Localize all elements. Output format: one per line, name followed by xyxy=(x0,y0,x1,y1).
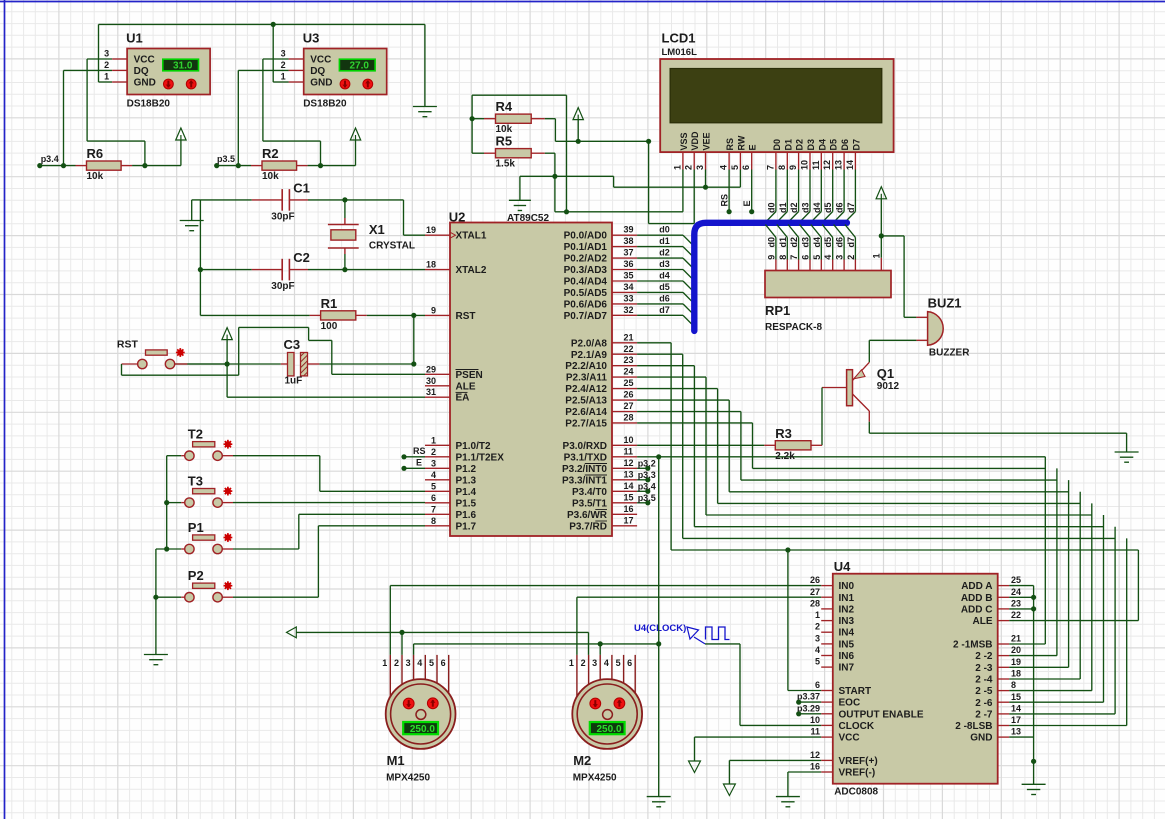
svg-text:17: 17 xyxy=(1011,715,1021,725)
svg-text:d4: d4 xyxy=(812,202,822,213)
svg-text:5: 5 xyxy=(815,657,820,667)
svg-text:12: 12 xyxy=(810,750,820,760)
svg-text:d0: d0 xyxy=(766,237,776,248)
svg-text:2: 2 xyxy=(684,165,694,170)
svg-text:ADD C: ADD C xyxy=(961,604,993,615)
svg-text:START: START xyxy=(839,686,872,697)
svg-text:BUZZER: BUZZER xyxy=(929,348,970,359)
svg-text:18: 18 xyxy=(1011,669,1021,679)
svg-text:38: 38 xyxy=(624,236,634,246)
svg-text:d3: d3 xyxy=(659,259,670,269)
svg-text:RST: RST xyxy=(456,311,476,322)
svg-text:13: 13 xyxy=(624,469,634,479)
svg-text:D6: D6 xyxy=(840,139,850,151)
svg-text:11: 11 xyxy=(810,727,820,737)
svg-text:p3.2: p3.2 xyxy=(638,458,656,468)
svg-text:P0.5/AD5: P0.5/AD5 xyxy=(564,288,608,299)
svg-text:12: 12 xyxy=(822,160,832,170)
svg-text:4: 4 xyxy=(823,255,833,260)
svg-text:OUTPUT ENABLE: OUTPUT ENABLE xyxy=(839,709,924,720)
svg-text:34: 34 xyxy=(624,282,634,292)
svg-text:P0.4/AD4: P0.4/AD4 xyxy=(564,277,608,288)
svg-text:U4(CLOCK): U4(CLOCK) xyxy=(634,623,686,634)
svg-text:P2.7/A15: P2.7/A15 xyxy=(565,418,607,429)
svg-text:3: 3 xyxy=(815,633,820,643)
svg-text:7: 7 xyxy=(765,165,775,170)
svg-text:P1.6: P1.6 xyxy=(456,510,477,521)
svg-text:3: 3 xyxy=(431,458,436,468)
svg-text:d4: d4 xyxy=(812,237,822,248)
svg-text:5: 5 xyxy=(812,255,822,260)
svg-text:D2: D2 xyxy=(795,139,805,151)
svg-text:19: 19 xyxy=(426,225,436,235)
svg-text:IN4: IN4 xyxy=(839,628,855,639)
svg-text:P3.2/INT0: P3.2/INT0 xyxy=(562,464,607,475)
svg-text:P2.3/A11: P2.3/A11 xyxy=(566,373,608,384)
svg-text:27.0: 27.0 xyxy=(349,61,369,72)
svg-text:1: 1 xyxy=(281,72,286,82)
svg-text:2: 2 xyxy=(581,658,586,668)
svg-text:2 -6: 2 -6 xyxy=(975,698,993,709)
svg-text:D5: D5 xyxy=(829,139,839,151)
svg-text:ADD B: ADD B xyxy=(961,593,993,604)
svg-text:1: 1 xyxy=(104,72,109,82)
svg-text:14: 14 xyxy=(1011,703,1021,713)
svg-text:31.0: 31.0 xyxy=(173,61,193,72)
svg-text:ADD A: ADD A xyxy=(961,581,992,592)
svg-text:GND: GND xyxy=(134,78,156,89)
svg-text:P1.3: P1.3 xyxy=(456,475,477,486)
svg-text:100: 100 xyxy=(321,321,338,332)
svg-text:VCC: VCC xyxy=(134,55,155,66)
svg-text:2: 2 xyxy=(104,60,109,70)
svg-text:GND: GND xyxy=(970,733,992,744)
svg-text:p3.4: p3.4 xyxy=(41,154,59,164)
svg-text:32: 32 xyxy=(624,305,634,315)
svg-text:RP1: RP1 xyxy=(765,303,790,318)
svg-text:P0.6/AD6: P0.6/AD6 xyxy=(564,299,608,310)
svg-text:P0.2/AD2: P0.2/AD2 xyxy=(564,254,608,265)
svg-text:C1: C1 xyxy=(293,180,310,195)
svg-text:d0: d0 xyxy=(659,225,670,235)
svg-text:1uF: 1uF xyxy=(285,376,303,387)
svg-text:3: 3 xyxy=(835,255,845,260)
svg-text:d1: d1 xyxy=(778,237,788,248)
svg-text:6: 6 xyxy=(741,165,751,170)
svg-text:18: 18 xyxy=(426,260,436,270)
svg-text:D0: D0 xyxy=(772,139,782,151)
svg-text:P1.1/T2EX: P1.1/T2EX xyxy=(456,452,505,463)
svg-text:20: 20 xyxy=(1011,645,1021,655)
svg-text:p3.5: p3.5 xyxy=(217,154,235,164)
svg-text:6: 6 xyxy=(627,658,632,668)
svg-text:6: 6 xyxy=(801,255,811,260)
svg-text:30: 30 xyxy=(426,376,436,386)
svg-text:P3.3/INT1: P3.3/INT1 xyxy=(562,475,607,486)
svg-text:d7: d7 xyxy=(846,202,856,213)
svg-text:2 -2: 2 -2 xyxy=(975,651,993,662)
svg-text:VREF(+): VREF(+) xyxy=(839,756,878,767)
svg-text:P3.7/RD: P3.7/RD xyxy=(569,521,607,532)
svg-text:d2: d2 xyxy=(659,248,670,258)
svg-text:30pF: 30pF xyxy=(271,281,294,292)
svg-text:4: 4 xyxy=(604,658,609,668)
svg-text:250.0: 250.0 xyxy=(596,724,621,735)
svg-text:7: 7 xyxy=(789,255,799,260)
svg-text:P2.6/A14: P2.6/A14 xyxy=(565,407,607,418)
svg-text:4: 4 xyxy=(815,645,820,655)
svg-text:VCC: VCC xyxy=(839,733,860,744)
svg-text:XTAL2: XTAL2 xyxy=(456,265,487,276)
svg-text:R1: R1 xyxy=(321,296,338,311)
svg-text:P2: P2 xyxy=(188,568,204,583)
svg-text:21: 21 xyxy=(624,332,634,342)
svg-text:U1: U1 xyxy=(126,31,143,46)
svg-text:X1: X1 xyxy=(369,222,385,237)
svg-text:M2: M2 xyxy=(573,753,591,768)
svg-text:DQ: DQ xyxy=(310,66,325,77)
svg-text:16: 16 xyxy=(810,762,820,772)
svg-text:ALE: ALE xyxy=(456,381,476,392)
svg-text:T2: T2 xyxy=(188,427,203,442)
svg-text:RW: RW xyxy=(736,135,746,150)
svg-text:2: 2 xyxy=(846,255,856,260)
svg-text:P0.3/AD3: P0.3/AD3 xyxy=(564,265,608,276)
svg-text:3: 3 xyxy=(281,49,286,59)
svg-text:P2.5/A13: P2.5/A13 xyxy=(565,396,607,407)
svg-text:P2.0/A8: P2.0/A8 xyxy=(571,338,608,349)
svg-text:22: 22 xyxy=(624,344,634,354)
svg-text:2 -7: 2 -7 xyxy=(975,709,993,720)
svg-text:10k: 10k xyxy=(87,171,104,182)
svg-text:1: 1 xyxy=(569,658,574,668)
svg-text:d2: d2 xyxy=(789,202,799,213)
svg-text:2: 2 xyxy=(815,622,820,632)
svg-text:R5: R5 xyxy=(496,134,513,149)
svg-text:13: 13 xyxy=(1011,727,1021,737)
svg-text:T3: T3 xyxy=(188,473,203,488)
svg-text:250.0: 250.0 xyxy=(410,724,435,735)
svg-text:d5: d5 xyxy=(659,282,670,292)
svg-text:P0.0/AD0: P0.0/AD0 xyxy=(564,231,608,242)
svg-text:p3.29: p3.29 xyxy=(797,703,820,713)
svg-text:LCD1: LCD1 xyxy=(662,31,696,46)
svg-text:VREF(-): VREF(-) xyxy=(839,768,876,779)
svg-text:P3.6/WR: P3.6/WR xyxy=(567,510,608,521)
svg-text:P1.4: P1.4 xyxy=(456,487,477,498)
svg-text:P3.4/T0: P3.4/T0 xyxy=(572,487,607,498)
svg-text:26: 26 xyxy=(624,390,634,400)
svg-text:p3.5: p3.5 xyxy=(638,493,656,503)
svg-text:DS18B20: DS18B20 xyxy=(303,99,347,110)
svg-text:C2: C2 xyxy=(293,250,310,265)
svg-text:25: 25 xyxy=(624,378,634,388)
svg-text:IN3: IN3 xyxy=(839,616,855,627)
svg-text:31: 31 xyxy=(426,387,436,397)
svg-text:3: 3 xyxy=(592,658,597,668)
svg-text:25: 25 xyxy=(1011,575,1021,585)
svg-text:15: 15 xyxy=(1011,692,1021,702)
svg-text:P1.0/T2: P1.0/T2 xyxy=(456,441,491,452)
svg-text:E: E xyxy=(748,144,758,150)
svg-text:16: 16 xyxy=(624,504,634,514)
svg-text:C3: C3 xyxy=(284,337,301,352)
svg-text:VSS: VSS xyxy=(679,132,689,150)
svg-text:27: 27 xyxy=(624,401,634,411)
svg-text:d7: d7 xyxy=(846,237,856,248)
svg-text:9: 9 xyxy=(766,255,776,260)
svg-text:LM016L: LM016L xyxy=(662,47,698,58)
svg-text:AT89C52: AT89C52 xyxy=(507,213,549,224)
svg-text:RST: RST xyxy=(117,339,139,351)
svg-text:24: 24 xyxy=(624,367,634,377)
svg-text:VCC: VCC xyxy=(310,55,331,66)
svg-text:4: 4 xyxy=(431,470,436,480)
svg-text:28: 28 xyxy=(624,412,634,422)
svg-text:R3: R3 xyxy=(775,426,792,441)
svg-text:P3.0/RXD: P3.0/RXD xyxy=(563,441,607,452)
svg-text:d3: d3 xyxy=(801,202,811,213)
svg-text:R6: R6 xyxy=(87,146,104,161)
svg-text:U3: U3 xyxy=(303,31,320,46)
svg-text:d6: d6 xyxy=(659,293,670,303)
svg-text:CRYSTAL: CRYSTAL xyxy=(369,241,415,252)
svg-text:1: 1 xyxy=(382,658,387,668)
svg-text:P1.2: P1.2 xyxy=(456,464,477,475)
svg-text:d1: d1 xyxy=(778,202,788,213)
svg-text:2: 2 xyxy=(431,447,436,457)
svg-text:CLOCK: CLOCK xyxy=(839,721,875,732)
svg-text:IN2: IN2 xyxy=(839,604,855,615)
svg-text:U4: U4 xyxy=(834,559,851,574)
svg-text:1: 1 xyxy=(815,610,820,620)
svg-text:VEE: VEE xyxy=(702,132,712,150)
svg-text:p3.4: p3.4 xyxy=(638,481,656,491)
svg-text:RS: RS xyxy=(720,194,730,207)
svg-text:8: 8 xyxy=(431,516,436,526)
svg-text:IN7: IN7 xyxy=(839,663,855,674)
svg-text:d7: d7 xyxy=(659,305,670,315)
svg-text:d4: d4 xyxy=(659,271,670,281)
svg-text:15: 15 xyxy=(624,492,634,502)
svg-text:P1.5: P1.5 xyxy=(456,498,477,509)
svg-text:EA: EA xyxy=(456,393,470,404)
svg-text:5: 5 xyxy=(730,165,740,170)
svg-text:MPX4250: MPX4250 xyxy=(386,773,430,784)
svg-text:3: 3 xyxy=(104,49,109,59)
svg-text:36: 36 xyxy=(624,259,634,269)
svg-text:4: 4 xyxy=(719,165,729,170)
svg-text:M1: M1 xyxy=(387,753,405,768)
svg-text:D4: D4 xyxy=(817,139,827,151)
svg-text:R2: R2 xyxy=(262,146,279,161)
svg-text:d5: d5 xyxy=(823,237,833,248)
svg-text:P3.1/TXD: P3.1/TXD xyxy=(564,452,607,463)
svg-text:23: 23 xyxy=(624,355,634,365)
svg-text:DQ: DQ xyxy=(134,66,149,77)
svg-text:5: 5 xyxy=(429,658,434,668)
svg-text:D3: D3 xyxy=(806,139,816,151)
svg-text:9012: 9012 xyxy=(877,381,900,392)
svg-text:PSEN: PSEN xyxy=(456,370,483,381)
svg-text:5: 5 xyxy=(616,658,621,668)
svg-text:d6: d6 xyxy=(835,202,845,213)
svg-text:P2.1/A9: P2.1/A9 xyxy=(571,350,608,361)
svg-text:EOC: EOC xyxy=(839,698,861,709)
svg-text:d5: d5 xyxy=(823,202,833,213)
svg-text:8: 8 xyxy=(778,255,788,260)
svg-text:RS: RS xyxy=(725,138,735,151)
svg-text:27: 27 xyxy=(810,587,820,597)
svg-text:D1: D1 xyxy=(783,139,793,151)
svg-text:2: 2 xyxy=(281,60,286,70)
svg-text:D7: D7 xyxy=(851,139,861,151)
svg-text:MPX4250: MPX4250 xyxy=(573,773,617,784)
svg-text:6: 6 xyxy=(441,658,446,668)
svg-text:1: 1 xyxy=(431,435,436,445)
svg-text:d1: d1 xyxy=(659,236,670,246)
svg-text:35: 35 xyxy=(624,271,634,281)
svg-text:P3.5/T1: P3.5/T1 xyxy=(572,498,607,509)
svg-text:26: 26 xyxy=(810,575,820,585)
svg-text:3: 3 xyxy=(406,658,411,668)
svg-text:10: 10 xyxy=(810,715,820,725)
svg-text:6: 6 xyxy=(431,493,436,503)
svg-text:30pF: 30pF xyxy=(271,211,294,222)
svg-text:17: 17 xyxy=(624,515,634,525)
svg-text:IN0: IN0 xyxy=(839,581,855,592)
svg-text:1.5k: 1.5k xyxy=(496,159,516,170)
svg-text:24: 24 xyxy=(1011,587,1021,597)
svg-text:7: 7 xyxy=(431,504,436,514)
svg-text:9: 9 xyxy=(788,165,798,170)
svg-text:13: 13 xyxy=(834,160,844,170)
svg-text:Q1: Q1 xyxy=(877,366,894,381)
svg-text:p3.3: p3.3 xyxy=(638,470,656,480)
svg-text:22: 22 xyxy=(1011,610,1021,620)
svg-text:R4: R4 xyxy=(496,99,513,114)
svg-text:GND: GND xyxy=(310,78,332,89)
svg-text:ALE: ALE xyxy=(973,616,993,627)
svg-text:P2.4/A12: P2.4/A12 xyxy=(565,384,607,395)
svg-text:d0: d0 xyxy=(766,202,776,213)
svg-text:23: 23 xyxy=(1011,598,1021,608)
svg-text:5: 5 xyxy=(431,481,436,491)
svg-text:8: 8 xyxy=(1011,680,1016,690)
svg-text:19: 19 xyxy=(1011,657,1021,667)
svg-text:RS: RS xyxy=(413,446,426,456)
svg-text:IN6: IN6 xyxy=(839,651,855,662)
svg-text:DS18B20: DS18B20 xyxy=(127,99,171,110)
svg-text:3: 3 xyxy=(695,165,705,170)
svg-text:1: 1 xyxy=(871,253,881,258)
svg-text:4: 4 xyxy=(417,658,422,668)
svg-text:2 -3: 2 -3 xyxy=(975,663,993,674)
svg-text:VDD: VDD xyxy=(690,131,700,151)
svg-text:9: 9 xyxy=(431,305,436,315)
svg-text:d2: d2 xyxy=(789,237,799,248)
svg-text:1: 1 xyxy=(672,165,682,170)
svg-text:2.2k: 2.2k xyxy=(775,451,795,462)
svg-text:IN1: IN1 xyxy=(839,593,855,604)
svg-text:d3: d3 xyxy=(801,237,811,248)
svg-text:XTAL1: XTAL1 xyxy=(456,231,487,242)
svg-text:2 -5: 2 -5 xyxy=(975,686,993,697)
svg-text:10: 10 xyxy=(624,435,634,445)
svg-text:E: E xyxy=(742,200,752,206)
svg-text:P0.1/AD1: P0.1/AD1 xyxy=(564,242,608,253)
svg-text:BUZ1: BUZ1 xyxy=(928,296,962,311)
svg-text:d6: d6 xyxy=(835,237,845,248)
svg-text:10k: 10k xyxy=(262,171,279,182)
svg-text:21: 21 xyxy=(1011,634,1021,644)
svg-text:2 -1MSB: 2 -1MSB xyxy=(953,640,992,651)
svg-text:37: 37 xyxy=(624,248,634,258)
svg-text:P1.7: P1.7 xyxy=(456,521,477,532)
svg-text:11: 11 xyxy=(811,160,821,170)
svg-text:8: 8 xyxy=(777,165,787,170)
svg-text:2 -4: 2 -4 xyxy=(975,675,993,686)
svg-text:IN5: IN5 xyxy=(839,639,855,650)
svg-text:p3.37: p3.37 xyxy=(797,692,820,702)
svg-text:P2.2/A10: P2.2/A10 xyxy=(565,361,607,372)
svg-text:2 -8LSB: 2 -8LSB xyxy=(955,721,992,732)
svg-text:39: 39 xyxy=(624,225,634,235)
svg-text:10: 10 xyxy=(800,160,810,170)
svg-text:33: 33 xyxy=(624,293,634,303)
svg-text:P0.7/AD7: P0.7/AD7 xyxy=(564,311,608,322)
svg-text:U2: U2 xyxy=(449,210,466,225)
svg-text:RESPACK-8: RESPACK-8 xyxy=(765,322,822,333)
svg-text:6: 6 xyxy=(815,680,820,690)
svg-text:E: E xyxy=(416,457,422,467)
svg-text:11: 11 xyxy=(624,446,634,456)
svg-text:28: 28 xyxy=(810,598,820,608)
svg-text:14: 14 xyxy=(845,160,855,170)
svg-text:29: 29 xyxy=(426,364,436,374)
svg-text:14: 14 xyxy=(624,481,634,491)
svg-text:ADC0808: ADC0808 xyxy=(834,787,878,798)
svg-text:2: 2 xyxy=(394,658,399,668)
svg-text:P1: P1 xyxy=(188,520,204,535)
svg-text:12: 12 xyxy=(624,458,634,468)
